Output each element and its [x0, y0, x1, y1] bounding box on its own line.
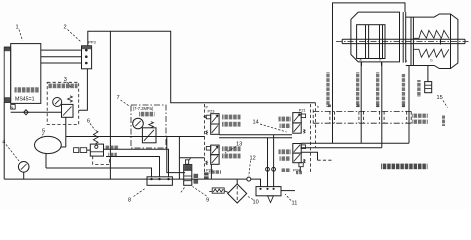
- item 9 exhaust column: [184, 158, 192, 185]
- PLC controller U1 box: [11, 44, 41, 104]
- label 11: [285, 194, 297, 207]
- small right annotation: [442, 116, 445, 127]
- pipe P20 long: [333, 3, 406, 143]
- left valve stack V1: [204, 108, 219, 134]
- item 3 gauge: [53, 98, 62, 107]
- caption text: [381, 164, 428, 170]
- left stack exhaust down: [210, 164, 212, 179]
- right valve stack V4: [293, 144, 301, 163]
- rotated pipe labels: [326, 72, 420, 107]
- port letters: [360, 58, 433, 63]
- svg-text:P21: P21: [299, 107, 306, 112]
- main supply pipe P: [66, 136, 205, 138]
- item 3 regulator valve: [62, 96, 74, 118]
- collector line B: [301, 147, 382, 149]
- pipe L3: [381, 62, 383, 148]
- drain marker N: [11, 105, 16, 110]
- filter muffler: [212, 188, 228, 193]
- svg-text:2: 2: [64, 25, 67, 31]
- junction circle on bus: [247, 177, 261, 187]
- item 6 value text: [105, 146, 119, 157]
- right boundary dashed: [310, 104, 312, 172]
- right valve stack V3: [293, 107, 306, 133]
- svg-text:4: 4: [2, 140, 5, 146]
- pilot dashed vertical: [316, 103, 320, 148]
- muffler left stub: [209, 191, 212, 193]
- label 1: [16, 25, 23, 41]
- svg-text:P23: P23: [208, 108, 215, 113]
- interconnect wire upper: [219, 134, 292, 136]
- solenoid marks left stack: [206, 115, 211, 165]
- label 12: [249, 156, 256, 177]
- svg-text:N: N: [11, 105, 14, 110]
- svg-text:1: 1: [16, 25, 19, 31]
- pipe L5 with plug: [425, 66, 432, 93]
- manifold 1: [147, 177, 172, 186]
- spring piston: [411, 17, 413, 65]
- cabinet left edge: [3, 103, 5, 180]
- pipe L2: [360, 62, 362, 143]
- branch elbow to valve station: [179, 157, 204, 159]
- left valve station boundary: [204, 104, 206, 172]
- label 14: [253, 120, 287, 133]
- item 6 relief valve: [90, 131, 103, 157]
- label 5: [41, 129, 45, 138]
- jog pipe to collectors: [301, 152, 317, 160]
- manifold 2: [256, 187, 295, 196]
- svg-text:14: 14: [253, 120, 259, 126]
- solenoid marks right stack: [301, 114, 305, 163]
- PLC side terminal strip: [4, 47, 11, 103]
- item 4 contact pressure gauge: [18, 162, 29, 180]
- cabinet boundary band: [313, 110, 411, 127]
- port stubs down: [362, 62, 382, 66]
- band annotation: [412, 114, 428, 124]
- left valve stack V2: [206, 145, 219, 172]
- lower spring: [413, 49, 449, 57]
- boundary port marks: [206, 106, 209, 110]
- port tick marks above band: [328, 105, 405, 108]
- label 3: [64, 77, 71, 88]
- cylinder rod: [342, 39, 465, 43]
- connector block X1: [82, 40, 97, 69]
- label 13: [225, 142, 242, 154]
- svg-text:10: 10: [253, 200, 259, 206]
- svg-text:9: 9: [206, 198, 209, 204]
- cabinet inner vertical: [109, 31, 111, 179]
- item 6 drain dashed: [93, 156, 110, 164]
- item 6 muffler inlet: [74, 148, 91, 153]
- svg-text:7: 7: [117, 95, 120, 101]
- svg-text:P04: P04: [293, 168, 301, 173]
- item 7 regulator valve: [142, 122, 156, 143]
- item 6 outlet line to manifold: [104, 149, 169, 177]
- svg-text:3: 3: [64, 77, 67, 83]
- svg-text:b: b: [431, 59, 433, 63]
- item 6 drain line to manifold: [106, 157, 160, 178]
- svg-text:u: u: [405, 59, 407, 63]
- right stack exhaust: [293, 163, 303, 173]
- svg-text:15: 15: [437, 95, 443, 101]
- label 7: [117, 95, 131, 107]
- wires PLC to connector: [41, 50, 82, 63]
- wire from connector down to gauge line: [79, 69, 88, 111]
- centerline tick: [440, 39, 442, 45]
- label 6: [87, 119, 95, 131]
- item 3 filter-regulator dashed box: [47, 82, 78, 124]
- pipe L4: [408, 66, 410, 144]
- cylinder left housing: [351, 12, 400, 62]
- label 4: [2, 140, 19, 162]
- muffler text right: [281, 168, 302, 174]
- tank line to manifold: [46, 168, 152, 177]
- bulkhead fittings: [330, 111, 411, 123]
- inlet pipe with junction diamond: [11, 110, 62, 115]
- label 8: [128, 189, 145, 204]
- item 7 precision regulator dashed box: [131, 105, 166, 148]
- signal wire route A: [88, 31, 316, 103]
- item 5 air tank: [35, 136, 62, 168]
- item 10 filter diamond: [228, 179, 247, 203]
- svg-text:6: 6: [87, 119, 90, 125]
- branch pipe down to muffler: [167, 137, 185, 173]
- center line: [336, 40, 470, 42]
- label 2: [64, 25, 81, 42]
- label 15: [437, 95, 448, 108]
- svg-text:11: 11: [292, 201, 298, 207]
- svg-text:13: 13: [236, 142, 242, 148]
- label 10: [248, 197, 259, 206]
- exhaust text marks: [204, 172, 209, 179]
- drain triangle: [268, 196, 274, 203]
- label 9: [180, 187, 209, 204]
- svg-text:h: h: [317, 105, 319, 109]
- branch pipe down to bus: [178, 137, 180, 180]
- upper spring: [413, 30, 449, 38]
- svg-text:PP3: PP3: [88, 40, 96, 45]
- separator wall: [403, 12, 406, 63]
- drop pipes to manifold 2 with couplers: [266, 135, 276, 187]
- bottom bus pipe: [4, 178, 247, 180]
- svg-text:(7-7.2MPa): (7-7.2MPa): [133, 106, 154, 111]
- svg-text:8: 8: [128, 198, 131, 204]
- collector line A: [301, 142, 409, 144]
- item 3 outlet pipe down: [65, 117, 67, 147]
- exhaust text: [194, 170, 222, 183]
- left stack annotation text: [222, 115, 241, 159]
- tank connect stub: [61, 146, 66, 148]
- svg-text:a: a: [360, 58, 362, 62]
- item 7 gauge: [133, 118, 144, 129]
- svg-text:MS45=1: MS45=1: [15, 97, 35, 103]
- spring chamber housing: [406, 14, 458, 69]
- right stack annotation text: [279, 117, 292, 161]
- interconnect wire lower: [219, 137, 292, 139]
